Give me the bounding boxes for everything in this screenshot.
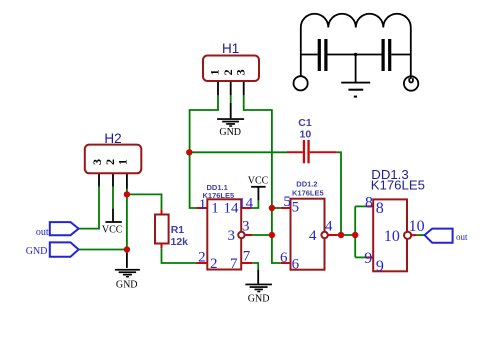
svg-text:3: 3 xyxy=(228,228,236,244)
svg-text:2: 2 xyxy=(198,250,206,266)
svg-text:C1: C1 xyxy=(298,117,312,129)
svg-text:7: 7 xyxy=(243,249,251,265)
svg-text:GND: GND xyxy=(219,127,241,138)
svg-text:10: 10 xyxy=(409,218,425,235)
svg-text:1: 1 xyxy=(115,159,129,165)
svg-text:out: out xyxy=(456,232,468,242)
svg-text:8: 8 xyxy=(376,200,384,217)
svg-text:10: 10 xyxy=(384,228,400,245)
svg-text:1: 1 xyxy=(211,201,219,217)
svg-text:3: 3 xyxy=(242,219,250,235)
svg-text:K176LE5: K176LE5 xyxy=(203,191,235,200)
svg-text:2: 2 xyxy=(210,256,218,272)
svg-text:H2: H2 xyxy=(104,131,121,146)
svg-text:DD1.2: DD1.2 xyxy=(296,180,317,189)
svg-text:8: 8 xyxy=(365,195,373,212)
svg-text:14: 14 xyxy=(224,201,240,217)
svg-text:10: 10 xyxy=(300,128,312,140)
svg-text:GND: GND xyxy=(26,246,48,257)
svg-text:4: 4 xyxy=(325,219,333,235)
svg-text:out: out xyxy=(36,227,49,238)
svg-text:K176LE5: K176LE5 xyxy=(292,189,324,198)
svg-text:K176LE5: K176LE5 xyxy=(371,178,425,193)
svg-text:6: 6 xyxy=(280,250,288,266)
svg-text:7: 7 xyxy=(230,256,238,272)
svg-text:12k: 12k xyxy=(171,236,189,248)
svg-text:1: 1 xyxy=(199,197,207,213)
svg-text:6: 6 xyxy=(292,257,300,273)
svg-text:3: 3 xyxy=(233,69,247,75)
svg-text:5: 5 xyxy=(283,194,291,210)
svg-text:H1: H1 xyxy=(222,41,239,56)
svg-text:VCC: VCC xyxy=(102,224,123,235)
svg-text:R1: R1 xyxy=(171,224,185,236)
svg-text:14: 14 xyxy=(238,195,254,211)
svg-text:VCC: VCC xyxy=(248,175,269,186)
svg-text:1: 1 xyxy=(208,69,222,75)
svg-text:GND: GND xyxy=(248,294,270,305)
svg-text:GND: GND xyxy=(116,280,138,291)
svg-text:9: 9 xyxy=(364,250,372,267)
svg-text:9: 9 xyxy=(376,258,384,275)
svg-text:5: 5 xyxy=(292,200,300,216)
svg-text:4: 4 xyxy=(309,228,317,244)
